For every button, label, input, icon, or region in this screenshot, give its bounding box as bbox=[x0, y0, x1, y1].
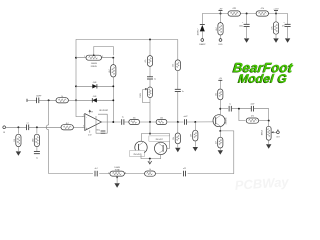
node emitter bbox=[219, 130, 221, 132]
wire input row bbox=[6, 126, 27, 128]
node diode B right bbox=[112, 99, 114, 101]
svg-text:1u: 1u bbox=[182, 91, 184, 93]
node JFET tee bbox=[149, 133, 151, 135]
svg-text:100KB: 100KB bbox=[91, 63, 98, 65]
node drive left bbox=[75, 57, 77, 59]
wire right rail upper bbox=[112, 58, 114, 65]
svg-text:100PF: 100PF bbox=[36, 95, 42, 97]
svg-text:u1: u1 bbox=[27, 123, 29, 125]
wire bbox=[68, 99, 76, 101]
resistor R12 4k7 emitter bbox=[216, 131, 223, 150]
wire diode row B bbox=[76, 99, 113, 101]
wire bbox=[39, 99, 56, 101]
node vol top bbox=[268, 120, 270, 122]
resistor R19 1k bbox=[144, 169, 155, 177]
wire JFET drop bbox=[149, 122, 151, 134]
svg-text:TONE: TONE bbox=[115, 170, 121, 172]
svg-text:OUT: OUT bbox=[276, 137, 280, 139]
svg-text:10k: 10k bbox=[160, 118, 163, 120]
svg-text:9VADP: 9VADP bbox=[199, 43, 206, 46]
svg-text:u047: u047 bbox=[250, 104, 254, 106]
ground bbox=[114, 183, 119, 187]
ground bbox=[193, 147, 198, 151]
capacitor C6 1u bbox=[175, 71, 184, 122]
wire to pin3 bbox=[73, 126, 83, 128]
svg-text:1u: 1u bbox=[154, 78, 156, 80]
wire bbox=[140, 121, 157, 123]
wire drive row bbox=[76, 57, 113, 59]
wire collector row bbox=[220, 108, 228, 110]
svg-text:1u: 1u bbox=[229, 103, 231, 105]
svg-text:100KA: 100KA bbox=[260, 129, 263, 135]
ground bbox=[285, 38, 290, 42]
svg-text:3: 3 bbox=[102, 56, 103, 58]
resistor R7 22k bbox=[173, 40, 181, 71]
svg-text:47R: 47R bbox=[232, 8, 236, 10]
capacitor C2 100PF bbox=[36, 95, 42, 103]
capacitor C9 u047 bbox=[250, 104, 254, 112]
transistor Q2 2N5457 bbox=[155, 142, 167, 154]
svg-text:47k: 47k bbox=[272, 26, 274, 29]
node diode A right bbox=[112, 85, 114, 87]
wire bbox=[259, 120, 269, 122]
svg-text:47k: 47k bbox=[251, 115, 254, 117]
resistor R8 10k bbox=[129, 118, 140, 125]
node 22k tap bbox=[177, 121, 179, 123]
svg-text:4k7: 4k7 bbox=[66, 123, 69, 125]
svg-text:1: 1 bbox=[108, 172, 109, 174]
capacitor C12 4u7 bbox=[93, 168, 99, 177]
wire hop vertical bbox=[46, 100, 48, 173]
diode D1 1N5817 bbox=[198, 25, 205, 39]
svg-text:1u: 1u bbox=[122, 117, 124, 119]
node drive right bbox=[112, 57, 114, 59]
transistor Q3 2N5088 bbox=[213, 115, 227, 127]
svg-text:47k: 47k bbox=[261, 8, 264, 10]
node +9V tick bbox=[219, 8, 223, 14]
svg-text:LED: LED bbox=[219, 44, 223, 46]
svg-text:4148: 4148 bbox=[93, 82, 97, 84]
wire to base bbox=[187, 121, 214, 123]
svg-text:1: 1 bbox=[84, 56, 85, 58]
potentiometer VR3 VOLUME 100KA bbox=[260, 121, 276, 144]
capacitor C11 47u bbox=[282, 14, 291, 39]
svg-text:10k: 10k bbox=[215, 93, 217, 96]
capacitor C10 100u bbox=[239, 14, 250, 39]
capacitor C1 u1 bbox=[27, 123, 29, 131]
ground bbox=[273, 38, 278, 42]
wire bbox=[124, 121, 129, 123]
ground arrow bbox=[148, 159, 152, 164]
potentiometer VR4 TONE 100KB bbox=[108, 167, 126, 183]
output terminal bbox=[276, 130, 280, 139]
ground bbox=[175, 148, 180, 152]
node output bbox=[112, 121, 114, 123]
svg-text:2M2: 2M2 bbox=[33, 139, 35, 143]
potentiometer VR1 DRIVE 100KB bbox=[84, 47, 113, 68]
wire to Q1 bbox=[141, 134, 150, 142]
wire op-amp output bbox=[101, 121, 120, 123]
svg-text:1k: 1k bbox=[149, 169, 151, 171]
resistor R15 47k bbox=[256, 8, 268, 16]
node top tap bbox=[149, 39, 151, 41]
svg-text:1u: 1u bbox=[36, 158, 38, 160]
wire to vol bbox=[254, 109, 269, 121]
svg-text:Model G: Model G bbox=[238, 72, 288, 86]
svg-text:9V: 9V bbox=[91, 111, 93, 113]
input terminal IN bbox=[3, 126, 6, 134]
svg-text:4u7: 4u7 bbox=[95, 168, 98, 170]
node bias1 bbox=[17, 126, 19, 128]
node diode A left bbox=[75, 85, 77, 87]
node loop tap bbox=[48, 99, 50, 101]
resistor R3 1k bbox=[56, 96, 68, 103]
svg-text:47k: 47k bbox=[145, 59, 147, 62]
svg-text:u047: u047 bbox=[184, 116, 188, 118]
terminal LED bbox=[219, 39, 223, 47]
resistor R6 47k bbox=[145, 40, 153, 67]
wire +9V rail bbox=[202, 13, 287, 15]
resistor R5 4k7 bbox=[109, 65, 116, 77]
wire to Q2 bbox=[150, 134, 170, 149]
potentiometer VR2 SAG bbox=[140, 87, 153, 122]
wire right rail lower bbox=[112, 77, 114, 122]
wire bbox=[167, 121, 184, 123]
capacitor C7 u047 bbox=[184, 116, 188, 125]
wire JFET sources bbox=[141, 154, 161, 159]
wire bus bbox=[49, 173, 234, 175]
svg-text:100u: 100u bbox=[239, 26, 243, 28]
node +9V tick collector bbox=[218, 78, 222, 81]
node collector bbox=[219, 108, 221, 110]
node bias2 bbox=[36, 126, 38, 128]
node rc tap bbox=[238, 108, 240, 110]
wire top feedback bbox=[76, 40, 178, 101]
svg-text:820p: 820p bbox=[96, 129, 100, 131]
ground bbox=[16, 151, 21, 155]
svg-text:1k: 1k bbox=[61, 96, 63, 98]
terminal 9VADP bbox=[199, 39, 206, 47]
capacitor C4 1u bbox=[122, 117, 124, 125]
resistor R11 1M bbox=[191, 122, 198, 147]
node +4.5V tick bbox=[273, 8, 279, 14]
feedback box bbox=[96, 114, 107, 133]
svg-text:2N-5457: 2N-5457 bbox=[133, 154, 140, 156]
diode D2 bbox=[92, 82, 97, 89]
capacitor C3 1u bbox=[34, 152, 40, 160]
resistor R2 4k7 bbox=[61, 123, 73, 130]
wire rc lower bbox=[239, 109, 246, 121]
node source join bbox=[149, 158, 151, 160]
wire bbox=[231, 108, 251, 110]
svg-text:4k7: 4k7 bbox=[216, 141, 218, 144]
resistor R9 10k bbox=[156, 118, 167, 125]
svg-text:u22: u22 bbox=[183, 168, 186, 170]
wire inverting input bbox=[76, 100, 83, 116]
resistor R4 2M2 bbox=[33, 127, 40, 151]
node diode B left bbox=[75, 99, 77, 101]
op-amp U1 bbox=[82, 110, 109, 136]
resistor R16 47k bbox=[272, 14, 279, 39]
resistor R13 4k7 (LED) bbox=[216, 14, 223, 39]
ground bbox=[244, 38, 249, 42]
transistor Q1 2N5457 bbox=[135, 141, 147, 153]
label Q2 bbox=[149, 136, 170, 141]
logo BearFoot bbox=[231, 60, 294, 86]
svg-text:DRIVE: DRIVE bbox=[91, 66, 98, 68]
node J1 bbox=[246, 13, 248, 15]
svg-text:10k: 10k bbox=[173, 137, 175, 140]
label Q1 bbox=[130, 150, 145, 156]
resistor R17 10k collector bbox=[215, 80, 223, 115]
svg-text:+4.5V: +4.5V bbox=[273, 8, 279, 10]
wire emitter bbox=[219, 126, 221, 131]
wire diode row A bbox=[76, 85, 113, 87]
svg-text:2N5088: 2N5088 bbox=[225, 118, 227, 125]
wire diode branch bbox=[201, 14, 203, 25]
diode D3 bbox=[92, 96, 97, 103]
resistor R18 47k bbox=[246, 115, 258, 123]
wire bbox=[29, 126, 62, 128]
resistor R14 47R bbox=[228, 8, 240, 16]
capacitor C5 1u bbox=[147, 66, 156, 87]
svg-text:JRC4558P: JRC4558P bbox=[99, 110, 109, 112]
svg-text:2N-5457: 2N-5457 bbox=[156, 139, 163, 141]
svg-text:47u: 47u bbox=[282, 26, 285, 28]
node base tap bbox=[194, 121, 196, 123]
capacitor C13 u22 bbox=[181, 168, 187, 176]
stub antenna bbox=[27, 99, 37, 102]
resistor R1 1M bbox=[14, 127, 21, 151]
svg-text:3: 3 bbox=[125, 172, 126, 174]
ground bbox=[266, 144, 271, 148]
capacitor C8 1u bbox=[229, 103, 231, 111]
svg-text:1N5817: 1N5817 bbox=[198, 28, 200, 36]
svg-text:10k: 10k bbox=[133, 118, 136, 120]
svg-text:4148: 4148 bbox=[93, 96, 97, 98]
resistor R10 10k lower bbox=[173, 122, 180, 147]
svg-text:-: - bbox=[86, 116, 87, 119]
wire emitter loop bbox=[220, 131, 234, 174]
ground bbox=[218, 150, 223, 154]
node sag tap bbox=[149, 121, 151, 123]
svg-text:22k: 22k bbox=[173, 64, 175, 67]
